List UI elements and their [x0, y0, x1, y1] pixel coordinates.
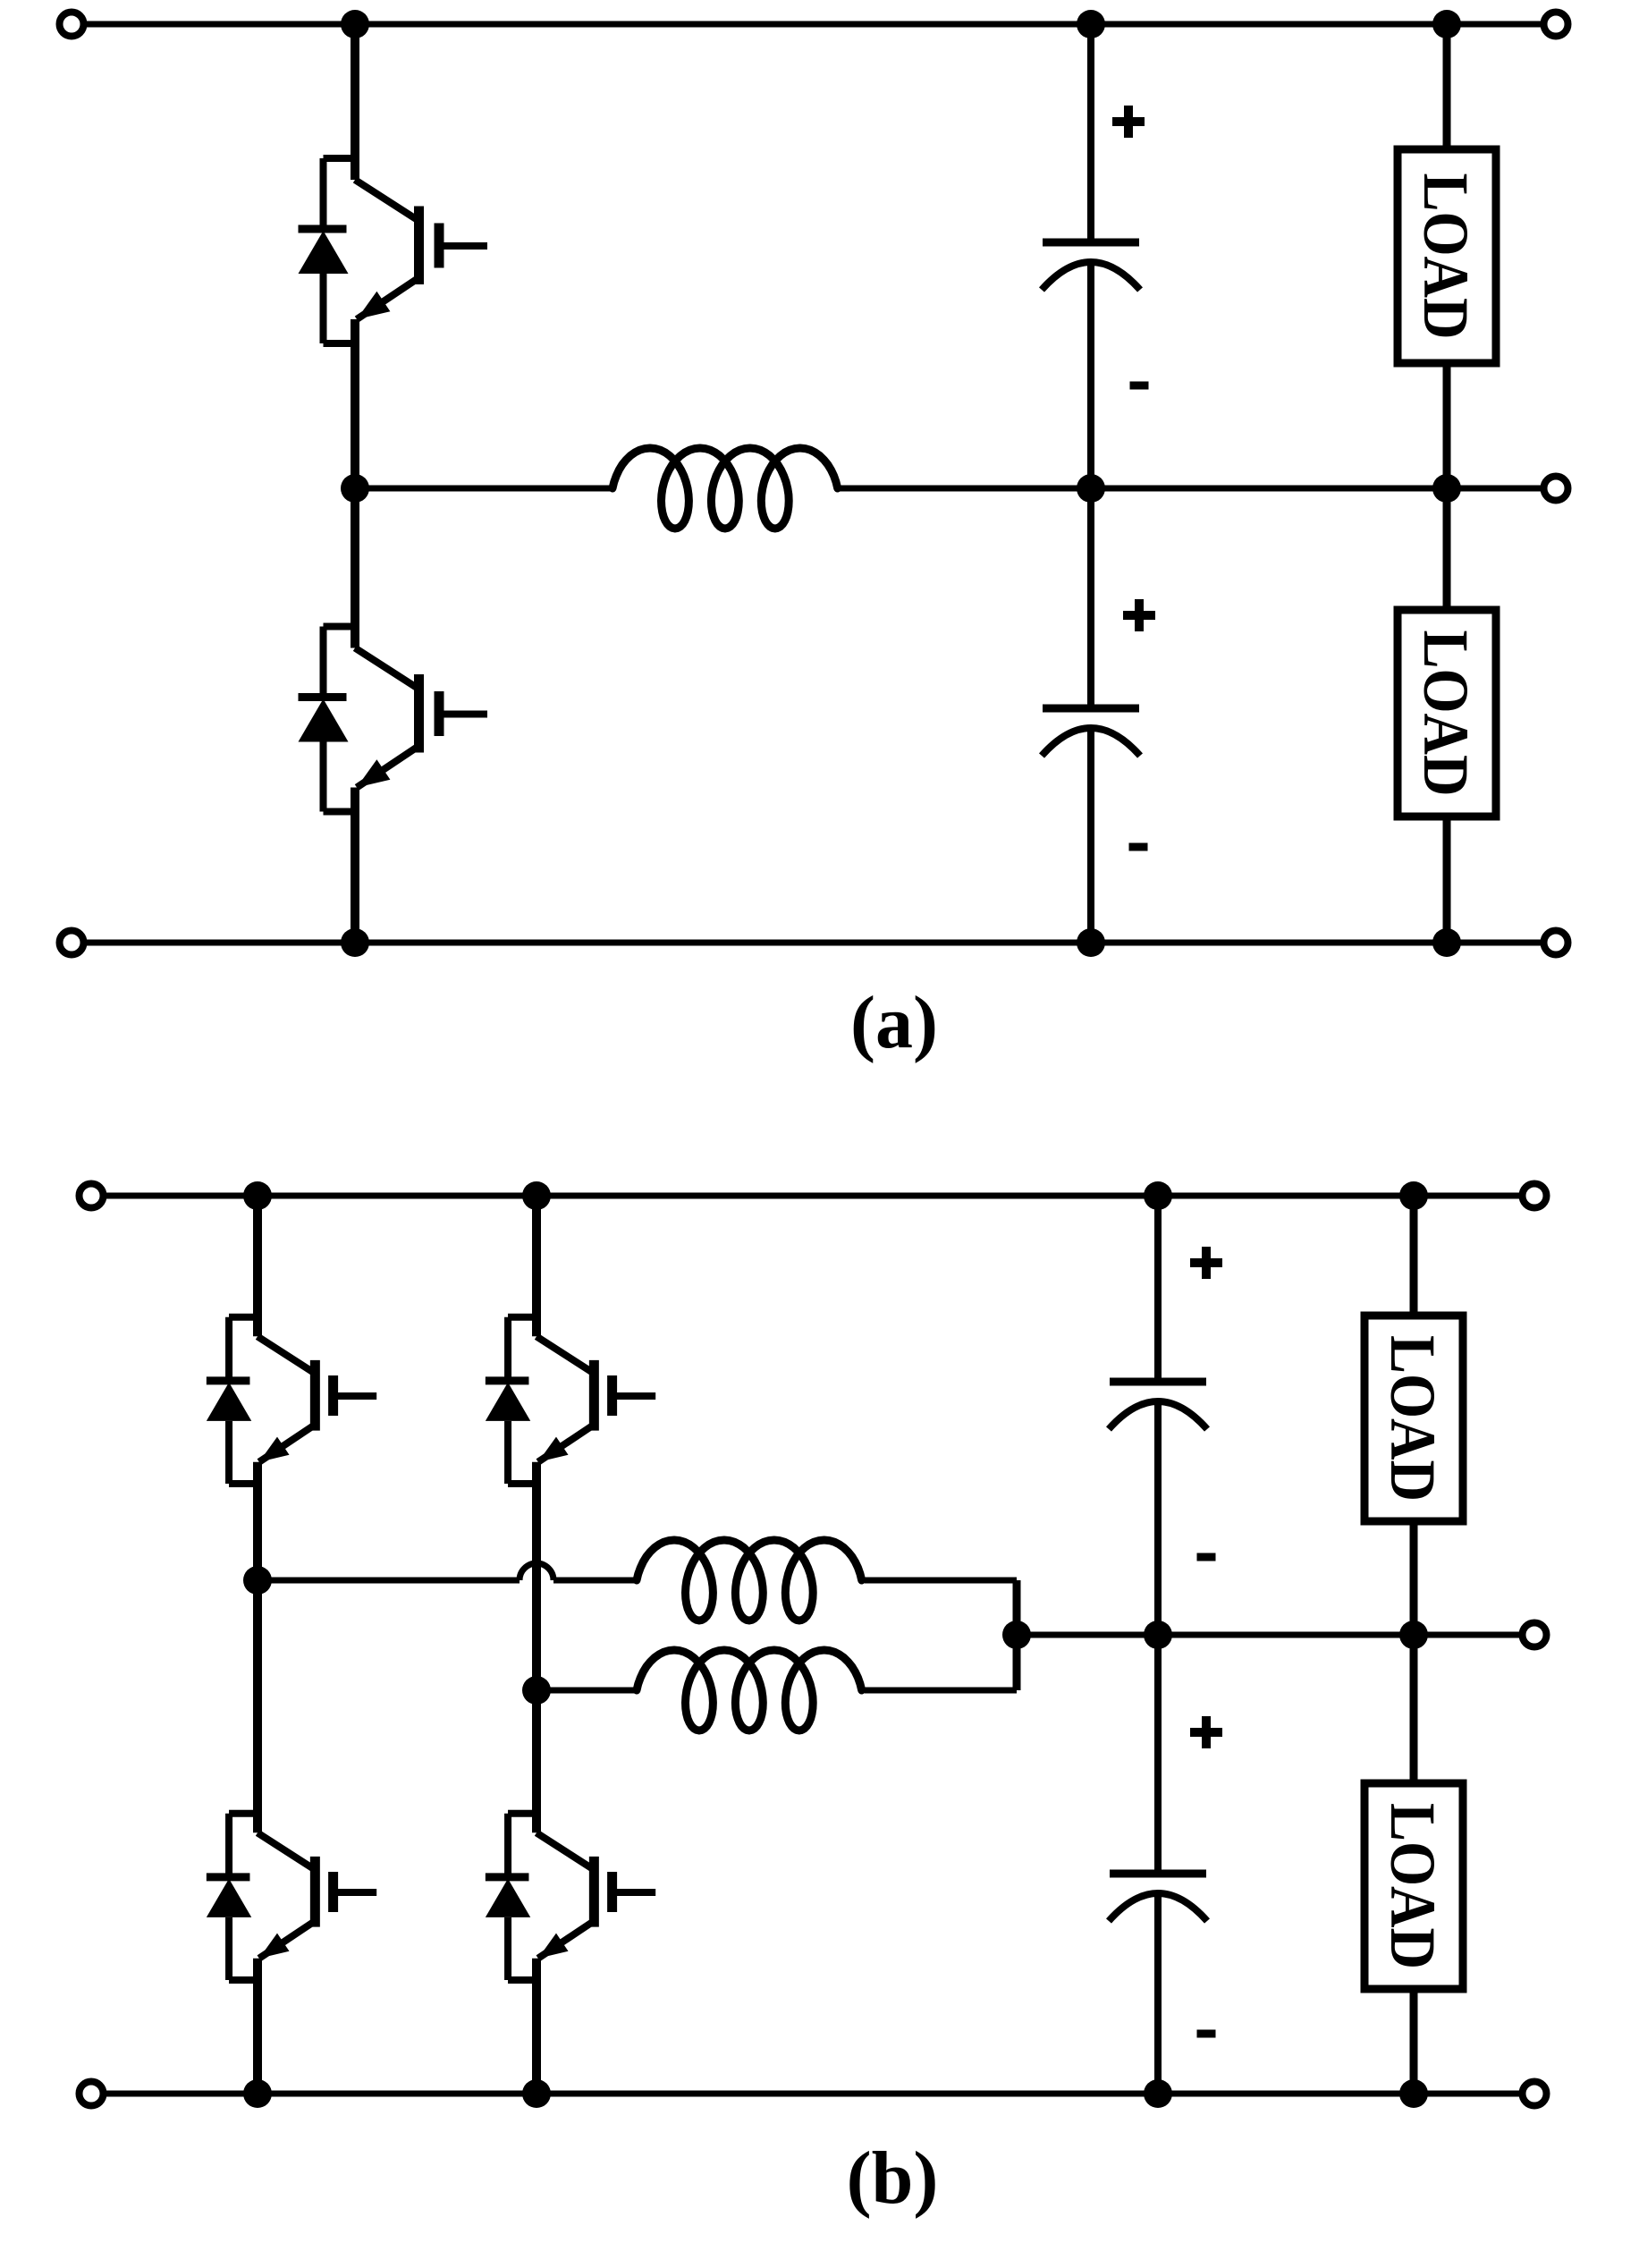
- plus label C3+: [1190, 1247, 1222, 1279]
- plus label C2+: [1123, 599, 1155, 631]
- inductor L3 (b lower): [637, 1650, 862, 1731]
- wire leg a lower emitter: [351, 788, 359, 944]
- wire leg1 b upper collector: [253, 1196, 262, 1336]
- svg-text:LOAD: LOAD: [1377, 1803, 1449, 1969]
- junction a-top-1618: [1432, 10, 1461, 38]
- wire cap C3 top lead: [1154, 1196, 1162, 1382]
- wire load1 bottom lead: [1443, 363, 1451, 488]
- wire mid rail (a) right: [839, 486, 1541, 492]
- wire leg1 b lower collector: [253, 1580, 262, 1832]
- wire cap C4 top lead: [1154, 1635, 1162, 1874]
- svg-text:LOAD: LOAD: [1410, 173, 1482, 340]
- minus label C3-: [1197, 1553, 1216, 1561]
- terminal a-bot-right: [1544, 931, 1568, 955]
- terminal a-top-left: [60, 13, 84, 37]
- wire cap C2 bottom lead: [1087, 728, 1094, 943]
- terminal a-mid-right: [1544, 477, 1568, 501]
- junction b-bot-288: [243, 2079, 272, 2108]
- wire leg2 b lower emitter: [532, 1959, 541, 2094]
- terminal b-top-left: [80, 1184, 104, 1208]
- wire cap C1 bottom lead: [1087, 262, 1094, 488]
- junction b-mid-1137: [1002, 1621, 1031, 1649]
- load resistor LOAD2 (a lower): [1398, 610, 1496, 817]
- svg-text:(b): (b): [847, 2137, 939, 2220]
- junction a-bot-397: [341, 928, 369, 957]
- terminal b-mid-right: [1523, 1623, 1547, 1647]
- junction b-top-600: [522, 1181, 551, 1210]
- wire leg a lower collector: [351, 488, 359, 648]
- wire mid rail (a) left: [355, 486, 615, 492]
- svg-text:LOAD: LOAD: [1377, 1335, 1449, 1502]
- junction a-mid-1220: [1077, 474, 1105, 503]
- wire cap C3 bottom lead: [1154, 1401, 1162, 1635]
- IGBT Q2 (a bottom): [299, 627, 488, 812]
- load resistor LOAD1 (a upper): [1398, 149, 1496, 363]
- terminal b-bot-right: [1523, 2082, 1547, 2106]
- inductor L1 (a): [613, 448, 838, 529]
- plus label C1+: [1112, 106, 1145, 138]
- capacitor C4 (b lower): [1109, 1874, 1207, 1921]
- wire top rail (b): [106, 1193, 1519, 1199]
- wire load4 top lead: [1410, 1635, 1418, 1783]
- junction b-bot-1581: [1399, 2079, 1428, 2108]
- junction a-mid-1618: [1432, 474, 1461, 503]
- wire leg a upper emitter: [351, 319, 359, 488]
- load resistor LOAD3 (b upper): [1364, 1316, 1463, 1521]
- junction a-top-397: [341, 10, 369, 38]
- wire load2 top lead: [1443, 488, 1451, 610]
- junction b-mid-1581: [1399, 1621, 1428, 1649]
- junction b-top-288: [243, 1181, 272, 1210]
- wire cap C4 bottom lead: [1154, 1893, 1162, 2094]
- wire phase1 to coil: [553, 1578, 637, 1584]
- wire leg2 b upper collector: [532, 1196, 541, 1336]
- capacitor C3 (b upper): [1109, 1382, 1207, 1429]
- wire leg1 b upper emitter: [253, 1462, 262, 1580]
- IGBT Q4 (b upper-right): [486, 1317, 655, 1484]
- capacitor C1 (a upper): [1042, 242, 1140, 290]
- wire bottom rail (a): [87, 940, 1541, 946]
- wire bottom rail (b): [106, 2091, 1519, 2097]
- junction b-top-1581: [1399, 1181, 1428, 1210]
- wire load3 bottom lead: [1410, 1521, 1418, 1635]
- IGBT Q3 (b upper-left): [207, 1317, 376, 1484]
- junction a-bot-1618: [1432, 928, 1461, 957]
- svg-text:(a): (a): [850, 981, 938, 1064]
- junction a-top-1220: [1077, 10, 1105, 38]
- wire coil outputs join: [1013, 1580, 1021, 1690]
- terminal b-top-right: [1523, 1184, 1547, 1208]
- svg-text:LOAD: LOAD: [1410, 630, 1482, 797]
- wire load3 top lead: [1410, 1196, 1418, 1316]
- IGBT Q1 (a top): [299, 158, 488, 343]
- plus label C4+: [1190, 1716, 1222, 1748]
- junction a-bot-1220: [1077, 928, 1105, 957]
- junction b-top-1295: [1144, 1181, 1172, 1210]
- inductor L2 (b upper): [637, 1540, 862, 1621]
- wire phase1 left segment: [258, 1578, 520, 1584]
- terminal a-bot-left: [60, 931, 84, 955]
- IGBT Q5 (b lower-left): [207, 1814, 376, 1980]
- wire crossover hop: [520, 1563, 553, 1580]
- junction b-phase2: [522, 1676, 551, 1705]
- IGBT Q6 (b lower-right): [486, 1814, 655, 1980]
- wire mid rail (b): [1017, 1632, 1519, 1638]
- terminal b-bot-left: [80, 2082, 104, 2106]
- wire coil L2 to node: [865, 1578, 1017, 1584]
- wire load1 top lead: [1443, 24, 1451, 149]
- wire leg2 b upper emitter: [532, 1462, 541, 1690]
- wire coil L3 to node: [865, 1688, 1017, 1694]
- junction b-phase1: [243, 1566, 272, 1595]
- terminal a-top-right: [1544, 13, 1568, 37]
- wire cap C1 top lead: [1087, 24, 1094, 242]
- junction b-bot-600: [522, 2079, 551, 2108]
- wire cap C2 top lead: [1087, 488, 1094, 708]
- wire phase2 to coil: [536, 1688, 637, 1694]
- junction b-bot-1295: [1144, 2079, 1172, 2108]
- junction b-mid-1295: [1144, 1621, 1172, 1649]
- wire load2 bottom lead: [1443, 817, 1451, 943]
- junction a-mid-397: [341, 474, 369, 503]
- wire leg a upper collector: [351, 24, 359, 180]
- wire load4 bottom lead: [1410, 1989, 1418, 2094]
- load resistor LOAD4 (b lower): [1364, 1783, 1463, 1989]
- wire top rail (a): [87, 21, 1541, 28]
- wire leg1 b lower emitter: [253, 1959, 262, 2094]
- wire leg2 b lower collector: [532, 1690, 541, 1832]
- minus label C4-: [1197, 2030, 1216, 2038]
- minus label C2-: [1129, 843, 1148, 851]
- minus label C1-: [1130, 382, 1149, 390]
- capacitor C2 (a lower): [1042, 708, 1140, 756]
